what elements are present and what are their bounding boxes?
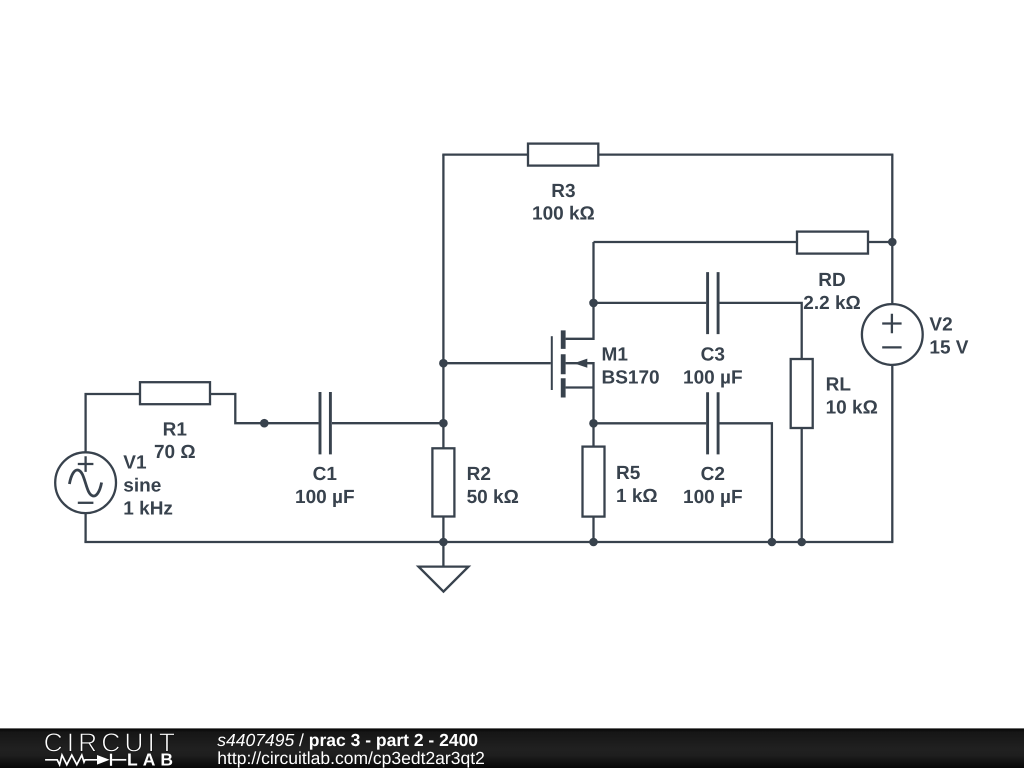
resistor R2 [432, 448, 454, 516]
resistor RL [791, 359, 813, 428]
svg-text:100 kΩ: 100 kΩ [532, 204, 595, 225]
wire R2 bottom [442, 517, 444, 543]
svg-text:C3: C3 [701, 345, 725, 366]
wire drain vertical [566, 242, 594, 339]
svg-text:1 kHz: 1 kHz [123, 498, 173, 519]
wire bottom rail [84, 541, 893, 543]
svg-text:R5: R5 [616, 463, 641, 484]
wire RD row [594, 241, 894, 243]
svg-text:70 Ω: 70 Ω [154, 442, 196, 463]
node on input wire [260, 419, 269, 428]
ground [442, 542, 444, 567]
node R5 bottom [589, 538, 598, 547]
wire right vertical to V2 [891, 155, 893, 305]
wire C3 left [594, 302, 707, 304]
wire gate lead [443, 362, 550, 364]
wire V1 top lead to R1 [86, 394, 140, 452]
footer bar [0, 728, 1024, 768]
wire left vertical (gate/R3 column) [442, 155, 444, 449]
svg-text:RD: RD [818, 270, 845, 291]
svg-text:s4407495 / prac 3 - part 2 - 2: s4407495 / prac 3 - part 2 - 2400 [217, 730, 478, 750]
svg-text:10 kΩ: 10 kΩ [826, 397, 878, 418]
node ground junction [439, 538, 448, 547]
svg-text:M1: M1 [602, 345, 629, 366]
node C2 bottom [768, 538, 777, 547]
node C3 branch [589, 299, 598, 308]
svg-text:http://circuitlab.com/cp3edt2a: http://circuitlab.com/cp3edt2ar3qt2 [217, 748, 485, 768]
node RD/V2 junction [888, 238, 897, 247]
transistor M1 BS170 [552, 330, 594, 423]
node gate junction [439, 359, 448, 368]
wire R5 bottom [592, 517, 594, 542]
svg-text:1 kΩ: 1 kΩ [616, 486, 658, 507]
logo resistor-diode symbol [45, 754, 126, 766]
svg-text:50 kΩ: 50 kΩ [467, 487, 519, 508]
wire C3 right to RL [718, 303, 802, 359]
resistor R5 [583, 447, 605, 517]
wire top (R3 row) [442, 153, 893, 155]
svg-text:100 µF: 100 µF [683, 487, 743, 508]
voltage source V2 [862, 304, 923, 365]
wire R5 top [592, 423, 594, 446]
svg-text:R3: R3 [551, 181, 575, 202]
svg-text:V1: V1 [123, 452, 147, 473]
svg-text:C1: C1 [313, 464, 338, 485]
wire R1 to C1 [210, 394, 319, 423]
wire C2 right down [718, 423, 772, 542]
svg-text:sine: sine [123, 475, 161, 496]
wire V2 bottom lead [891, 365, 893, 542]
voltage source V1 [55, 452, 116, 513]
svg-text:LAB: LAB [127, 750, 178, 768]
node source junction [589, 419, 598, 428]
resistor R1 [140, 382, 210, 404]
wire C1 to gate column [332, 422, 443, 424]
svg-text:2.2 kΩ: 2.2 kΩ [803, 293, 861, 314]
svg-text:100 µF: 100 µF [683, 367, 743, 388]
capacitor C3 [708, 272, 719, 334]
svg-text:R2: R2 [467, 464, 491, 485]
wire RL bottom [801, 428, 803, 542]
svg-text:V2: V2 [929, 314, 952, 335]
wire source to C2 [594, 422, 707, 424]
svg-text:C2: C2 [701, 464, 725, 485]
svg-text:R1: R1 [163, 420, 188, 441]
resistor R3 [528, 144, 598, 166]
node C1/R2 junction [439, 419, 448, 428]
svg-text:BS170: BS170 [602, 367, 660, 388]
wire V1 bottom lead [84, 513, 86, 542]
capacitor C2 [708, 392, 719, 454]
capacitor C1 [320, 392, 330, 454]
svg-text:15 V: 15 V [929, 338, 968, 359]
svg-text:RL: RL [826, 374, 852, 395]
resistor RD [797, 232, 868, 254]
svg-text:100 µF: 100 µF [295, 487, 355, 508]
node RL bottom [797, 538, 806, 547]
